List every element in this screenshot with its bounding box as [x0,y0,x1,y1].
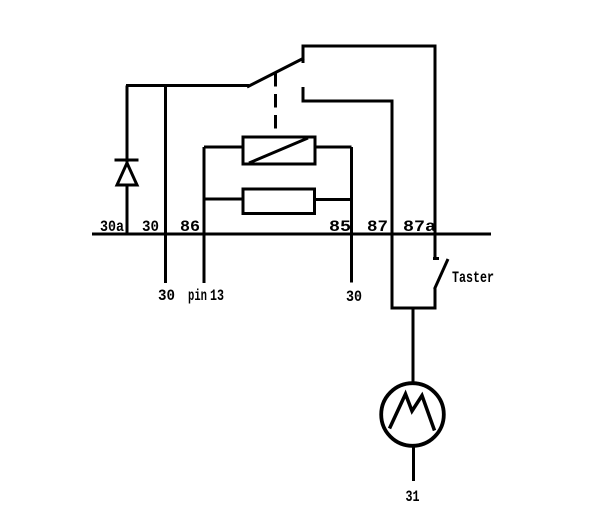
svg-text:87: 87 [367,218,388,236]
relay coil K1 diagonal [249,138,308,163]
svg-text:87a: 87a [403,218,436,236]
terminal bus line [92,233,491,236]
wire motor to terminal 31 [412,446,415,481]
Taster switch S1 contact hook [433,257,439,260]
wire vertical terminal 87 down to junction [391,101,394,310]
wire bottom junction horizontal [392,307,437,310]
wire right vertical to terminal 87a [434,45,437,236]
wire upper contact stub [302,46,305,63]
wire lower contact stub [302,87,305,103]
svg-text:30: 30 [346,288,362,306]
Taster switch S1 lower stub [434,288,437,310]
Taster switch S1 upper stub [434,235,437,259]
motor M1 letter M [390,394,435,431]
svg-text:Taster: Taster [452,269,494,287]
wire vertical terminal 85 [350,147,353,283]
diode D1 cathode bar [115,159,139,162]
motor M1 circle [381,383,444,446]
wire vertical terminal 30 [164,86,167,284]
resistor R1 box [243,189,315,214]
wire coil right lead [315,146,352,149]
wire left horizontal (30 feed) [126,84,249,87]
relay contact arm (changeover switch) [247,58,304,87]
wire to motor [412,307,415,384]
Taster switch S1 arm [435,259,449,289]
wire vertical terminal 30a with diode branch [126,86,129,236]
svg-text:30: 30 [142,218,159,236]
wire resistor right lead [315,198,352,201]
wire resistor left lead [204,198,243,201]
svg-text:pin: pin [188,287,207,305]
diode D1 triangle [117,163,137,185]
svg-text:86: 86 [180,218,200,236]
wire vertical terminal 86 (pin 13) [203,147,206,283]
wire horizontal to terminal 87 [302,100,394,103]
relay coil K1 box [243,137,315,164]
svg-text:31: 31 [406,488,420,506]
wire coil left lead [204,146,243,149]
svg-text:30a: 30a [100,218,124,236]
svg-text:30: 30 [158,287,175,305]
svg-text:85: 85 [329,218,351,236]
dashed actuation link [274,73,277,136]
wire top horizontal (87a feed) [302,45,437,48]
svg-text:13: 13 [210,287,224,305]
